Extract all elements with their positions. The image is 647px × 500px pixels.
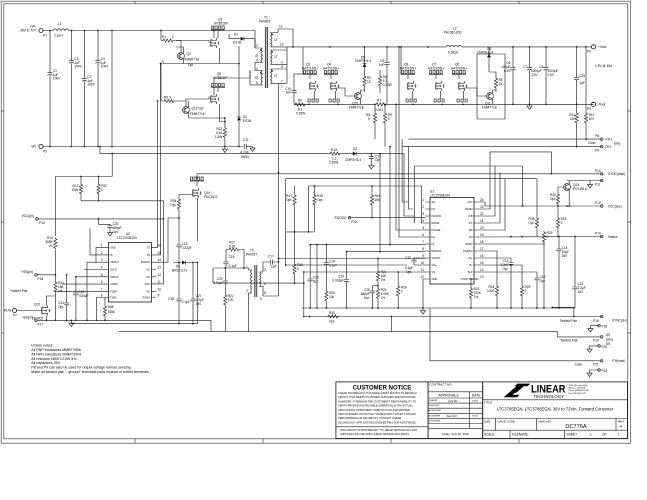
terminal P13 VCC(pri) (22, 214, 45, 225)
T3 primary winding (251, 270, 253, 284)
svg-text:OF: OF (602, 432, 606, 436)
svg-text:0.25W: 0.25W (329, 161, 338, 165)
svg-text:1: 1 (422, 198, 424, 202)
svg-text:10: 10 (280, 43, 284, 47)
terminal P18 gnd (588, 324, 608, 332)
svg-text:All PNP transistors MMBT3906.: All PNP transistors MMBT3906. (31, 348, 81, 352)
svg-text:ES1B: ES1B (233, 41, 241, 45)
svg-text:THIS CIRCUIT IS PROPRIETARY TO: THIS CIRCUIT IS PROPRIETARY TO LINEAR TE… (340, 428, 417, 432)
svg-text:PGND: PGND (465, 207, 473, 211)
svg-text:P18: P18 (602, 325, 608, 329)
ground sync (587, 183, 592, 188)
svg-text:13: 13 (480, 275, 484, 279)
svg-text:FCX491A: FCX491A (573, 187, 588, 191)
svg-text:IS-: IS- (469, 263, 472, 267)
resistor R27 5.1K (226, 241, 244, 269)
svg-text:3: 3 (256, 67, 258, 71)
svg-text:2.5V: 2.5V (531, 73, 538, 77)
wire U1 pin9 net (279, 258, 426, 260)
svg-text:3/3/04: 3/3/04 (472, 416, 479, 418)
svg-text:Twisted Pair: Twisted Pair (560, 319, 578, 323)
svg-text:Friday, June 24, 2005: Friday, June 24, 2005 (442, 432, 469, 436)
svg-text:LINEAR TECHNOLOGY HAS MADE A B: LINEAR TECHNOLOGY HAS MADE A BEST EFFORT… (338, 391, 417, 395)
svg-text:DWG NO: DWG NO (539, 419, 552, 423)
svg-text:TS/B+: TS/B+ (110, 289, 118, 293)
mosfet Q7 HAT2165H (428, 63, 445, 103)
svg-text:DRAWN: DRAWN (429, 399, 438, 402)
svg-text:HAT2165H: HAT2165H (302, 67, 318, 71)
svg-text:Opt.: Opt. (286, 198, 292, 202)
svg-text:NC: NC (146, 275, 150, 279)
svg-text:15: 15 (480, 261, 484, 265)
terminal P21 ITH(mstr) (575, 359, 626, 367)
T1 primary winding 5T (261, 71, 263, 85)
svg-text:0: 0 (297, 267, 299, 271)
svg-text:IS+: IS+ (469, 256, 473, 260)
svg-text:SIZE: SIZE (484, 419, 490, 423)
svg-text:2.2µH: 2.2µH (54, 34, 63, 38)
title row (483, 400, 628, 412)
resistor R20 0 (397, 271, 407, 308)
svg-text:SS/FLT: SS/FLT (110, 275, 119, 279)
svg-text:11: 11 (158, 280, 162, 284)
svg-text:SG: SG (432, 200, 436, 204)
svg-text:1T: 1T (274, 38, 278, 42)
terminal P20 gnd (587, 342, 610, 353)
svg-text:IS: IS (110, 253, 113, 257)
terminal P15 +SS(pri) (21, 270, 56, 281)
resistor R36 0 (293, 232, 303, 283)
SECTION: U2 area (55, 176, 305, 332)
svg-text:VSOUT: VSOUT (110, 260, 119, 264)
wire U1 pin10 net (286, 264, 407, 266)
wire -SS bus (37, 320, 211, 331)
SECTION: input (20, 22, 255, 159)
svg-text:100V: 100V (101, 65, 109, 69)
svg-text:P10: P10 (595, 169, 601, 173)
U2 right pins (141, 243, 161, 299)
svg-text:Milpitas, CA 95035: Milpitas, CA 95035 (569, 387, 587, 390)
svg-text:100V: 100V (74, 65, 82, 69)
svg-text:8: 8 (422, 247, 424, 251)
svg-text:1%: 1% (474, 295, 479, 299)
U1 left pin stubs (420, 198, 441, 281)
svg-text:1: 1 (101, 243, 103, 247)
SECTION: primary fets (160, 18, 255, 153)
svg-text:SUPPLIED FOR USE WITH LINEAR T: SUPPLIED FOR USE WITH LINEAR TECHNOLOGY … (340, 432, 410, 436)
svg-text:1%: 1% (48, 244, 53, 248)
wire branch to R17 box (111, 154, 113, 177)
wire ITH(mstr) (430, 308, 600, 361)
svg-text:IS-: IS- (432, 242, 435, 246)
svg-text:165k: 165k (108, 310, 115, 314)
svg-text:-Vout: -Vout (598, 103, 606, 107)
wire U1 pin20 (479, 179, 506, 230)
svg-text:PGND: PGND (143, 296, 151, 300)
svg-text:SCALE:: SCALE: (484, 432, 495, 436)
svg-text:6: 6 (264, 282, 266, 286)
svg-text:12: 12 (420, 275, 424, 279)
wire primary node A (163, 46, 239, 64)
size cage dwg row (483, 419, 628, 431)
svg-text:2: 2 (256, 44, 258, 48)
svg-text:4: 4 (101, 266, 103, 270)
svg-text:RUN: RUN (4, 309, 12, 313)
svg-text:RUN/SS: RUN/SS (432, 249, 442, 253)
resistor R29b 4.05K 1% (376, 285, 389, 308)
SECTION: secondary (285, 27, 620, 153)
capacitor C18 3.3nF (324, 245, 337, 290)
wire U1 pin8 net (347, 154, 426, 252)
svg-text:Opt.: Opt. (364, 296, 370, 300)
svg-text:10: 10 (420, 261, 424, 265)
svg-text:15: 15 (158, 251, 162, 255)
svg-text:0: 0 (525, 289, 527, 293)
svg-text:1.5V @ 45A: 1.5V @ 45A (595, 64, 613, 68)
resistor R30 Opt (550, 193, 570, 207)
svg-text:June Wu: June Wu (448, 400, 458, 403)
op-amp U2 LTC3705EGN body (109, 232, 152, 302)
wire mesh long y178 (286, 179, 537, 232)
svg-text:ENGINEER: ENGINEER (429, 415, 441, 417)
svg-text:6: 6 (422, 233, 424, 237)
svg-text:APPROVALS: APPROVALS (438, 394, 459, 398)
capacitor C32 0.1uF Opt (405, 256, 426, 274)
svg-text:-Vin: -Vin (30, 145, 36, 149)
svg-text:FILENAME:: FILENAME: (512, 432, 529, 436)
svg-text:0: 0 (388, 117, 390, 121)
svg-text:-SS(pri): -SS(pri) (22, 316, 33, 320)
wire secondary top bus (286, 46, 446, 48)
SECTION: notes (31, 344, 149, 374)
wire -Vin to R13 line (100, 147, 329, 154)
U2 left pins (101, 243, 120, 299)
svg-text:BAS21LT1: BAS21LT1 (172, 269, 187, 273)
svg-text:P5: P5 (43, 150, 47, 154)
svg-text:PA0805: PA0805 (259, 20, 270, 24)
svg-text:100: 100 (589, 117, 595, 121)
svg-text:VCC: VCC (145, 282, 151, 286)
SECTION: transformer T1 (250, 16, 293, 89)
wire -ITH (402, 146, 600, 148)
svg-text:HAT2165H: HAT2165H (400, 67, 416, 71)
wire x285 extend (285, 232, 287, 265)
wire T3 input (213, 268, 249, 283)
diode D6 CMPSH1-4 (477, 47, 493, 72)
svg-text:VCC: VCC (467, 200, 473, 204)
diode D3 CMPSH1-4 (341, 147, 404, 162)
terminal P3 -Vout (587, 102, 606, 111)
svg-text:FMMT718: FMMT718 (482, 106, 497, 110)
capacitor C11 (240, 138, 253, 159)
svg-text:1: 1 (246, 265, 248, 269)
transformer T1 PA0805 (250, 16, 293, 89)
svg-text:FG: FG (432, 207, 436, 211)
mosfet Q8 HAT2165H (400, 46, 417, 102)
title block outline (336, 382, 628, 439)
svg-text:1T: 1T (274, 55, 278, 59)
svg-text:CHECKED: CHECKED (429, 405, 440, 407)
capacitor C19 Opt (534, 275, 545, 308)
T3 pin wires (249, 262, 269, 332)
svg-text:5: 5 (256, 81, 258, 85)
wire mesh v3 (404, 154, 414, 223)
capacitor C16 0.1uF (223, 255, 244, 269)
resistor R23 100K 1% (469, 287, 482, 299)
svg-text:3/3/04: 3/3/04 (472, 401, 479, 403)
wire U2 pin1 loop (96, 247, 104, 262)
svg-text:0: 0 (561, 221, 563, 225)
svg-text:11: 11 (421, 268, 425, 272)
resistor R15 Opt (313, 185, 323, 232)
wire SS(sec) (119, 332, 600, 337)
svg-text:R40: R40 (329, 311, 335, 315)
svg-text:Opt.: Opt. (550, 197, 556, 201)
svg-text:DATE: DATE (472, 394, 482, 398)
svg-text:P2: P2 (587, 50, 591, 54)
wire T3 sec bottom (213, 262, 304, 296)
svg-text:3: 3 (101, 258, 103, 262)
svg-text:21: 21 (480, 219, 484, 223)
svg-text:4T: 4T (255, 54, 259, 58)
resistor R8 0 (366, 104, 377, 140)
svg-text:HAT2165H: HAT2165H (323, 67, 339, 71)
svg-text:1.5W: 1.5W (215, 135, 222, 139)
wire +ITH (408, 138, 600, 140)
node junctions on -Vin bus (49, 146, 240, 148)
resistor R5 15 (489, 72, 503, 92)
ground secondary (527, 104, 532, 109)
transistor Q12 FMMT718 (182, 101, 225, 118)
wire U1 pin14 (479, 272, 538, 278)
capacitor C22 opt (369, 153, 381, 169)
svg-text:1: 1 (590, 432, 592, 436)
svg-text:5: 5 (101, 273, 103, 277)
svg-text:VS+: VS+ (432, 263, 437, 267)
capacitor C4 (95, 31, 109, 147)
resistor R38 165k (103, 298, 115, 321)
svg-text:Fax (408)434-0507: Fax (408)434-0507 (569, 393, 588, 395)
svg-text:6.3V: 6.3V (504, 69, 511, 73)
T1 primary winding 4T (261, 48, 263, 62)
svg-text:6: 6 (101, 280, 103, 284)
wire secondary box (477, 54, 505, 119)
svg-text:16: 16 (480, 254, 484, 258)
svg-text:1630 McCarthy Blvd.: 1630 McCarthy Blvd. (569, 384, 589, 387)
svg-text:VS-: VS- (432, 270, 436, 274)
capacitor C21 2.2uF 16V (572, 236, 585, 308)
inductor L2 PA1362-650 (444, 27, 462, 55)
capacitor C14 10uF 25V (556, 236, 569, 308)
wire U1 VCC net (479, 202, 486, 206)
svg-text:GND: GND (110, 245, 116, 249)
svg-text:10k: 10k (329, 295, 335, 299)
inductor L1 (53, 22, 69, 38)
scale filename sheet row (483, 430, 628, 438)
T1 secondary winding 1T b (271, 50, 273, 64)
capacitor C7 1000uF (523, 47, 542, 105)
svg-text:P14: P14 (595, 232, 601, 236)
capacitor C6 100uF (501, 47, 515, 105)
svg-text:5T: 5T (255, 76, 259, 80)
wire plain column x317 (316, 245, 318, 308)
svg-text:2: 2 (246, 289, 248, 293)
svg-text:FDC2512: FDC2512 (204, 195, 218, 199)
svg-text:P7: P7 (13, 314, 17, 318)
terminal P17 -SS(pri) (22, 316, 43, 327)
wire Q1 drain from bus (214, 31, 218, 39)
svg-text:CIRCUIT BOARD LAYOUT MAY SIGNI: CIRCUIT BOARD LAYOUT MAY SIGNIFICANTLY A… (338, 412, 416, 416)
svg-text:D1: D1 (234, 33, 238, 37)
svg-text:Opt.: Opt. (170, 203, 176, 207)
svg-text:CIRCUIT THAT MEETS CUSTOMER-SU: CIRCUIT THAT MEETS CUSTOMER-SUPPLIED SPE… (338, 395, 416, 399)
svg-text:SYNC(slv): SYNC(slv) (612, 319, 627, 323)
svg-text:1nF: 1nF (379, 63, 385, 67)
capacitor C28 0.1uF (168, 263, 190, 324)
svg-text:.033µF: .033µF (79, 294, 89, 298)
svg-text:1%: 1% (381, 278, 386, 282)
T1 secondary winding 1T a (271, 33, 273, 47)
wire TS vertical (156, 101, 158, 247)
T1 primary pin wires (250, 31, 263, 85)
wire TG vertical (156, 64, 161, 255)
svg-text:CAGE CODE: CAGE CODE (498, 419, 515, 423)
node junctions on +Vin bus (49, 30, 215, 32)
svg-text:C8: C8 (539, 65, 543, 69)
wire x303 up (303, 272, 305, 283)
capacitor C24 0.033uF (332, 251, 349, 308)
wire U1 pin11 net (304, 271, 426, 273)
SECTION: right components (119, 152, 627, 377)
transformer T3 PA0267 (246, 249, 268, 332)
svg-text:36V to 72V: 36V to 72V (20, 29, 37, 33)
svg-text:14: 14 (158, 258, 162, 262)
svg-text:22: 22 (480, 212, 484, 216)
svg-text:(sec): (sec) (606, 338, 613, 342)
svg-text:7: 7 (281, 80, 283, 84)
svg-text:PGOOD: PGOOD (335, 216, 348, 220)
svg-text:TG: TG (146, 253, 150, 257)
svg-text:0: 0 (547, 235, 549, 239)
svg-text:12: 12 (158, 273, 162, 277)
wire left vertical x55 (54, 177, 56, 321)
mosfet Q3 HAT2165H (302, 47, 319, 102)
wire R17 box top (55, 176, 112, 178)
svg-text:100V: 100V (53, 77, 61, 81)
resistor R18 0 (556, 206, 566, 237)
transistor Q15 2N7002 (32, 296, 55, 321)
svg-text:2.5V: 2.5V (548, 73, 555, 77)
svg-text:C16: C16 (229, 255, 235, 259)
resistor R22 100 (224, 294, 234, 332)
svg-text:DC776A: DC776A (565, 424, 586, 430)
wire SYNC(mstr) bottom (567, 181, 600, 184)
capacitor C1 (47, 31, 61, 147)
resistor R29 0 (542, 231, 552, 308)
svg-text:DESIGNER: DESIGNER (429, 420, 441, 422)
wire U1 pin21 (479, 172, 501, 223)
svg-text:P11: P11 (595, 183, 601, 187)
svg-text:4: 4 (256, 59, 258, 63)
SECTION: title block (336, 382, 628, 439)
capacitor C26 .033uF (73, 276, 88, 320)
svg-text:(slv): (slv) (614, 142, 620, 146)
terminal P7 RUN (4, 308, 42, 317)
capacitor C20 470pF (214, 267, 228, 294)
svg-text:Make all twisted pair "- groun: Make all twisted pair "- ground" termina… (31, 370, 149, 374)
svg-text:C11: C11 (243, 138, 249, 142)
svg-text:PA0267: PA0267 (246, 253, 257, 257)
svg-text:5: 5 (260, 297, 262, 301)
svg-text:1µF: 1µF (271, 265, 277, 269)
svg-text:P13: P13 (39, 221, 45, 225)
svg-text:15: 15 (499, 82, 503, 86)
SECTION: bottom left (4, 177, 211, 332)
svg-text:8: 8 (101, 294, 103, 298)
svg-text:C7: C7 (523, 65, 527, 69)
svg-text:Opt.: Opt. (313, 280, 319, 284)
svg-text:3: 3 (422, 212, 424, 216)
svg-text:25V: 25V (196, 302, 203, 306)
svg-text:PERFORMANCE OR RELIABILITY. C: PERFORMANCE OR RELIABILITY. CONTACT LINE… (338, 416, 401, 420)
transistor Q10 FMMT718 (336, 88, 365, 110)
svg-text:3.3nF: 3.3nF (329, 264, 337, 268)
svg-text:100k: 100k (71, 188, 78, 192)
capacitor C15 3.3nF Opt (500, 259, 513, 308)
svg-text:C29: C29 (579, 74, 585, 78)
svg-text:11: 11 (279, 25, 283, 29)
svg-text:C32: C32 (405, 256, 411, 260)
wire VCC(pri) (38, 201, 163, 284)
ground bottom-left (69, 322, 74, 327)
svg-text:P23: P23 (351, 220, 357, 224)
svg-text:Q12 Opt: Q12 Opt (192, 107, 204, 111)
capacitor C31 Opt (58, 274, 69, 320)
svg-text:R38: R38 (108, 305, 114, 309)
svg-text:0: 0 (368, 117, 370, 121)
svg-text:P21: P21 (593, 363, 599, 367)
svg-text:ITH(mstr): ITH(mstr) (612, 359, 625, 363)
terminal P16 SYNC(slv) (560, 315, 627, 323)
svg-text:TECHNOLOGY: TECHNOLOGY (534, 394, 565, 399)
svg-text:PGDSO: PGDSO (463, 249, 472, 253)
note text block (31, 344, 149, 374)
resistor R6b snubber 5.1 (294, 99, 306, 116)
svg-text:1%: 1% (381, 296, 386, 300)
resistor R13 1.2 0.25W (329, 148, 341, 165)
wire vertical x396 (396, 104, 426, 230)
resistor R17 100k (71, 176, 82, 201)
wires U2 left pins to left (55, 228, 104, 320)
svg-text:FMMT718: FMMT718 (190, 112, 205, 116)
svg-text:R13: R13 (331, 148, 337, 152)
mosfet Q4 HAT2165H (323, 63, 340, 103)
resistor R1 (161, 31, 181, 53)
svg-text:7: 7 (422, 240, 424, 244)
svg-text:19: 19 (480, 233, 484, 237)
resistor R3 5.1 0.25W (378, 70, 391, 93)
wire R17 box bottom (81, 200, 164, 202)
svg-text:Coax: Coax (588, 141, 596, 145)
svg-text:REV: REV (618, 419, 624, 423)
svg-text:HAT2165H: HAT2165H (428, 67, 444, 71)
terminal P2 +Vout (587, 45, 613, 68)
resistor R11 100 (569, 104, 578, 146)
capacitor C29 1uF (574, 47, 585, 105)
svg-text:25V: 25V (562, 254, 569, 258)
capacitor C13 0.22uF (176, 218, 191, 263)
svg-text:C28: C28 (168, 297, 174, 301)
